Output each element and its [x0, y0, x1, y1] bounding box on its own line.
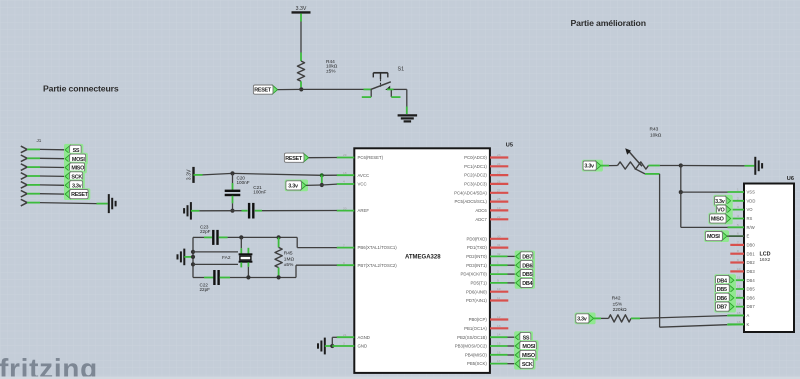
- net label DB7 (LCD): [714, 301, 736, 313]
- wire: [508, 336, 516, 338]
- svg-text:Partie connecteurs: Partie connecteurs: [43, 84, 119, 94]
- wire: [387, 89, 407, 114]
- svg-text:PB4(MISO): PB4(MISO): [465, 352, 488, 357]
- wire: [193, 251, 238, 253]
- svg-text:K: K: [747, 322, 750, 327]
- svg-text:PC1(ADC1): PC1(ADC1): [464, 164, 487, 169]
- svg-text:PB2(SS/OC1B): PB2(SS/OC1B): [457, 335, 487, 340]
- svg-text:16: 16: [737, 320, 741, 324]
- net label MOSI (LCD E): [704, 230, 729, 242]
- svg-text:7: 7: [737, 240, 739, 244]
- IC U5 designator: [506, 142, 513, 148]
- ground: [755, 157, 762, 175]
- svg-text:PD0(RXD): PD0(RXD): [467, 236, 488, 241]
- wire: [727, 323, 744, 325]
- node junction: [191, 250, 195, 267]
- crystal FA2: [222, 237, 252, 277]
- node junction: [679, 163, 683, 167]
- U5 right pins (unconnected): [490, 153, 508, 328]
- svg-text:12: 12: [737, 285, 741, 289]
- svg-text:3.3v: 3.3v: [577, 317, 587, 323]
- svg-text:DB6: DB6: [747, 295, 756, 300]
- svg-text:10: 10: [497, 287, 501, 291]
- net label DB5 (LCD): [714, 283, 736, 295]
- node junction: [277, 235, 281, 239]
- svg-text:1MΩ: 1MΩ: [284, 256, 295, 262]
- svg-text:3.3V: 3.3V: [296, 6, 307, 12]
- note: Partie amelioration: [571, 18, 646, 28]
- svg-text:FA2: FA2: [222, 255, 231, 261]
- wire: [680, 166, 682, 193]
- ground: [398, 115, 418, 121]
- wire: [332, 337, 337, 346]
- wire: [40, 184, 65, 186]
- svg-text:PD4(XCK/T0): PD4(XCK/T0): [461, 272, 488, 277]
- svg-text:U5: U5: [506, 142, 513, 148]
- svg-text:2: 2: [737, 196, 739, 200]
- svg-text:11: 11: [737, 276, 740, 280]
- svg-text:DB1: DB1: [747, 251, 756, 256]
- svg-text:11: 11: [497, 296, 500, 300]
- svg-text:PB5(SCK): PB5(SCK): [467, 361, 487, 366]
- svg-text:100nF: 100nF: [253, 189, 266, 194]
- node AVCC junction: [230, 171, 234, 175]
- svg-text:U6: U6: [787, 176, 794, 182]
- net label RESET (J1): [64, 188, 90, 200]
- svg-text:DB5: DB5: [747, 287, 756, 292]
- LCD U6 body: [744, 184, 794, 333]
- wire: [601, 165, 618, 167]
- svg-text:3: 3: [343, 342, 345, 346]
- power 3.3V (top): [292, 6, 311, 13]
- ground: [184, 202, 191, 220]
- svg-text:13: 13: [497, 324, 501, 328]
- svg-text:RS: RS: [747, 216, 753, 221]
- node AREF junction: [230, 209, 234, 213]
- wire: [40, 166, 65, 168]
- IC U5 ATMEGA328: [354, 148, 490, 373]
- svg-text:22pF: 22pF: [200, 287, 211, 292]
- svg-text:AREF: AREF: [358, 208, 370, 213]
- node junction: [320, 173, 324, 177]
- node VCC junction: [320, 183, 324, 187]
- net label RESET (top): [253, 85, 277, 94]
- ground: [178, 249, 185, 266]
- wire: [300, 53, 302, 62]
- svg-text:3.3V: 3.3V: [187, 169, 193, 180]
- svg-text:21: 21: [343, 333, 347, 337]
- svg-text:VO: VO: [747, 207, 754, 212]
- svg-text:26: 26: [497, 179, 501, 183]
- svg-text:PD3(INT1): PD3(INT1): [466, 263, 487, 268]
- svg-text:8: 8: [737, 249, 739, 253]
- svg-text:22pF: 22pF: [200, 229, 211, 234]
- wire: [727, 235, 744, 237]
- wire: [194, 174, 203, 176]
- svg-text:19: 19: [497, 206, 501, 210]
- svg-text:A: A: [747, 313, 750, 318]
- svg-text:±5%: ±5%: [284, 262, 294, 268]
- svg-text:±5%: ±5%: [326, 68, 336, 74]
- net label DB4 (U5): [515, 277, 535, 289]
- svg-text:GND: GND: [358, 344, 368, 349]
- svg-text:7: 7: [343, 243, 345, 247]
- svg-text:ADC7: ADC7: [475, 217, 487, 222]
- svg-text:VDD: VDD: [747, 198, 756, 203]
- net label 3.3v (J1): [64, 179, 85, 191]
- svg-text:13: 13: [737, 293, 741, 297]
- wire: [332, 345, 337, 347]
- wire: [660, 174, 728, 327]
- net label VO (LCD): [715, 204, 732, 216]
- node RESET junction: [299, 87, 303, 91]
- svg-text:ADC6: ADC6: [475, 208, 487, 213]
- wire: [40, 175, 65, 177]
- wire: [508, 273, 516, 275]
- svg-text:9: 9: [737, 258, 739, 262]
- svg-text:ATMEGA328: ATMEGA328: [405, 254, 441, 260]
- U5 right pins (connected): [490, 252, 508, 364]
- svg-text:AVCC: AVCC: [358, 173, 370, 178]
- svg-text:31: 31: [497, 243, 501, 247]
- net label DB6 (LCD): [714, 292, 736, 304]
- svg-text:12: 12: [497, 315, 501, 319]
- svg-text:PB7(XTAL2/TOSC2): PB7(XTAL2/TOSC2): [358, 263, 398, 268]
- svg-text:Partie amélioration: Partie amélioration: [571, 18, 646, 28]
- wire: [325, 345, 333, 347]
- power 3.3V (rotated): [187, 167, 194, 183]
- net label 3.3v (VCC): [285, 180, 308, 192]
- svg-text:SCK: SCK: [522, 362, 533, 368]
- svg-text:RESET: RESET: [71, 192, 89, 198]
- svg-text:10: 10: [737, 267, 741, 271]
- net label SS (U5): [514, 331, 533, 343]
- svg-text:DB2: DB2: [747, 260, 756, 265]
- svg-text:RESET: RESET: [285, 156, 303, 162]
- capacitor C21: [242, 185, 267, 219]
- wire: [508, 363, 516, 365]
- svg-text:22: 22: [497, 215, 501, 219]
- svg-text:PC0(ADC0): PC0(ADC0): [464, 155, 487, 160]
- net label SCK (U5): [514, 358, 535, 370]
- net label SS (J1): [64, 144, 83, 156]
- svg-text:PB1(OC1A): PB1(OC1A): [464, 326, 487, 331]
- wire: [508, 345, 516, 347]
- svg-text:R43: R43: [650, 127, 659, 133]
- connector J1 pin 4: [21, 173, 40, 180]
- wire: [192, 237, 194, 277]
- svg-text:R/W: R/W: [747, 225, 755, 230]
- wire: [191, 210, 242, 212]
- svg-text:S1: S1: [398, 67, 405, 73]
- wire: [228, 237, 337, 247]
- svg-text:AGND: AGND: [358, 335, 370, 340]
- wire: [184, 256, 193, 258]
- svg-text:20: 20: [343, 206, 347, 210]
- svg-text:J1: J1: [37, 138, 42, 143]
- svg-text:PC4(ADC4/SDA): PC4(ADC4/SDA): [454, 190, 487, 195]
- svg-text:PC6(RESET): PC6(RESET): [358, 155, 384, 160]
- node junction: [239, 235, 243, 239]
- svg-text:32: 32: [497, 252, 501, 256]
- svg-text:1: 1: [497, 261, 499, 265]
- net label MISO (LCD RS): [708, 213, 732, 225]
- svg-text:4: 4: [737, 214, 739, 218]
- svg-text:R42: R42: [612, 295, 621, 301]
- net label MOSI (J1): [64, 153, 88, 165]
- svg-text:PD6(AIN0): PD6(AIN0): [466, 289, 487, 294]
- svg-text:4: 4: [343, 180, 345, 184]
- net label DB5 (U5): [515, 268, 535, 280]
- wire: [301, 88, 371, 90]
- svg-text:14: 14: [497, 333, 501, 337]
- svg-text:VCC: VCC: [358, 182, 367, 187]
- svg-text:24: 24: [497, 162, 501, 166]
- wire: [40, 193, 65, 195]
- wire: [40, 148, 65, 150]
- svg-text:PD2(INT0): PD2(INT0): [466, 254, 487, 259]
- svg-text:8: 8: [343, 261, 345, 265]
- connector J1 pin 2: [21, 155, 40, 162]
- capacitor C23: [193, 224, 228, 245]
- wire: [727, 314, 744, 316]
- svg-text:RESET: RESET: [254, 88, 272, 94]
- connector J1 pin 3: [21, 164, 40, 171]
- wire: [193, 263, 238, 265]
- svg-text:17: 17: [497, 359, 501, 363]
- svg-text:23: 23: [497, 153, 501, 157]
- svg-text:MOSI: MOSI: [707, 234, 720, 240]
- svg-text:DB4: DB4: [747, 278, 756, 283]
- svg-text:220kΩ: 220kΩ: [613, 307, 627, 313]
- svg-text:PD5(T1): PD5(T1): [471, 281, 488, 286]
- svg-text:30: 30: [497, 234, 501, 238]
- svg-text:PC5(ADC5/SCL): PC5(ADC5/SCL): [455, 199, 488, 204]
- wire: [262, 210, 337, 212]
- svg-text:PB0(ICP): PB0(ICP): [469, 317, 488, 322]
- net label 3.3v (R43): [582, 160, 603, 172]
- wire: [649, 165, 681, 167]
- wire: [306, 184, 337, 185]
- ground: [318, 338, 325, 355]
- U5 left pin labels: [358, 155, 398, 349]
- wire: [322, 174, 337, 176]
- svg-text:R45: R45: [284, 251, 293, 257]
- wire: [508, 264, 516, 266]
- connector J1 label: [37, 138, 42, 143]
- svg-text:DB4: DB4: [522, 281, 532, 287]
- wire: [300, 81, 302, 87]
- wire: [508, 282, 516, 284]
- capacitor C20: [225, 173, 250, 210]
- net label DB4 (LCD): [714, 274, 736, 286]
- potentiometer R43: [618, 127, 662, 174]
- U5 left pins (connected): [337, 153, 355, 346]
- net label 3.3v (LCD VDD): [713, 195, 732, 207]
- node GND junction: [330, 344, 334, 348]
- wire: [681, 165, 755, 167]
- svg-text:28: 28: [497, 197, 501, 201]
- node junction: [246, 275, 250, 279]
- svg-text:10kΩ: 10kΩ: [650, 133, 662, 139]
- svg-text:E: E: [747, 234, 750, 239]
- wire: [681, 192, 728, 227]
- connector J1 pin 6: [21, 190, 40, 197]
- wire: [321, 175, 323, 185]
- wire: [640, 316, 727, 319]
- net label DB6 (U5): [515, 259, 535, 271]
- wire: [203, 173, 322, 175]
- svg-text:100nF: 100nF: [237, 180, 250, 185]
- net label MOSI (U5): [514, 340, 538, 352]
- node VSS junction: [679, 190, 683, 194]
- net label 3.3v (R42): [575, 313, 596, 325]
- svg-text:PB3(MOSI/OC2): PB3(MOSI/OC2): [455, 344, 488, 349]
- capacitor C22: [193, 270, 230, 292]
- svg-text:15: 15: [737, 311, 741, 315]
- resistor R45: [275, 237, 294, 277]
- svg-text:14: 14: [737, 302, 741, 306]
- wire: [681, 191, 728, 193]
- net label SCK (J1): [64, 171, 85, 183]
- svg-text:15: 15: [497, 342, 501, 346]
- wire: [40, 157, 65, 159]
- svg-text:±5%: ±5%: [613, 301, 623, 307]
- LCD U6 designator: [787, 176, 794, 182]
- resistor R42: [594, 295, 640, 322]
- svg-text:6: 6: [737, 232, 739, 236]
- U5 right pin labels: [454, 155, 487, 366]
- svg-text:PD1(TXD): PD1(TXD): [467, 245, 487, 250]
- svg-text:2: 2: [497, 270, 499, 274]
- wire: [40, 203, 108, 204]
- svg-text:PD7(AIN1): PD7(AIN1): [466, 298, 487, 303]
- svg-text:PC3(ADC3): PC3(ADC3): [464, 182, 487, 187]
- svg-text:PC2(ADC2): PC2(ADC2): [464, 173, 487, 178]
- svg-text:3.3v: 3.3v: [288, 184, 298, 190]
- connector J1 pin 1: [21, 146, 40, 153]
- note: Partie connecteurs: [43, 84, 119, 94]
- wire: [508, 354, 516, 356]
- svg-text:29: 29: [343, 153, 347, 157]
- wire: [309, 157, 337, 159]
- svg-text:18: 18: [343, 171, 347, 175]
- svg-text:DB7: DB7: [747, 304, 756, 309]
- connector J1 pin 7: [21, 199, 40, 206]
- svg-text:DB0: DB0: [747, 243, 756, 248]
- net label RESET (U5): [284, 153, 308, 162]
- node junction: [277, 275, 281, 279]
- pushbutton S1: [362, 67, 404, 98]
- svg-text:27: 27: [497, 188, 501, 192]
- svg-text:MISO: MISO: [711, 217, 724, 223]
- net label MISO (J1): [64, 162, 87, 174]
- svg-text:5: 5: [737, 223, 739, 227]
- svg-text:DB3: DB3: [747, 269, 756, 274]
- svg-text:PB6(XTAL1/TOSC1): PB6(XTAL1/TOSC1): [358, 245, 398, 250]
- wire: [300, 14, 302, 53]
- wire: [278, 88, 302, 90]
- wire: [230, 265, 337, 277]
- svg-text:16: 16: [497, 350, 501, 354]
- watermark fritzing: [0, 353, 98, 379]
- wire: [645, 173, 660, 175]
- net label MISO (U5): [514, 349, 538, 361]
- ground: [109, 194, 116, 213]
- svg-text:3: 3: [737, 205, 739, 209]
- connector J1 pin 5: [21, 182, 40, 189]
- svg-text:3.3v: 3.3v: [584, 164, 594, 170]
- svg-text:1: 1: [737, 188, 739, 192]
- svg-text:DB7: DB7: [717, 305, 727, 311]
- net label DB7 (U5): [515, 251, 535, 263]
- LCD U6 pins: [728, 188, 745, 325]
- svg-text:25: 25: [497, 171, 501, 175]
- resistor R44: [297, 59, 337, 82]
- svg-text:9: 9: [497, 278, 499, 282]
- svg-text:VSS: VSS: [747, 190, 756, 195]
- svg-text:16X2: 16X2: [760, 257, 771, 262]
- svg-text:fritzing: fritzing: [0, 353, 98, 379]
- wire: [508, 255, 516, 257]
